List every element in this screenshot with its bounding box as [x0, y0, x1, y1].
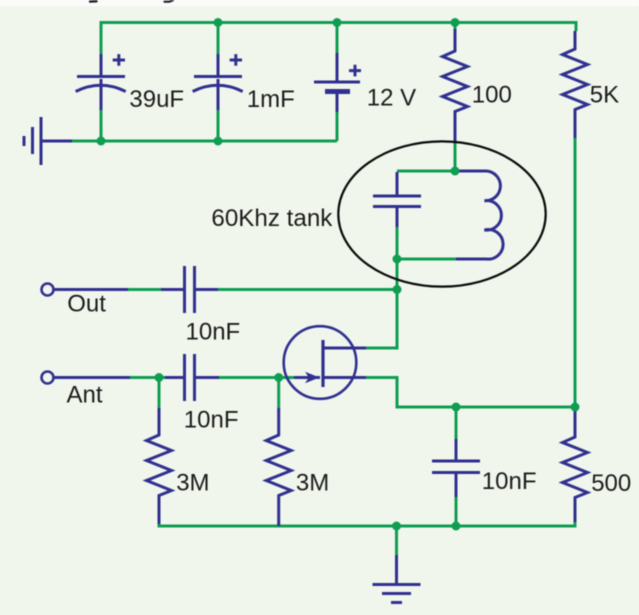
- node gate / 3M2: [274, 373, 283, 382]
- wire tank bottom horizontal (green part): [397, 258, 457, 261]
- transistor gate arrow: [305, 372, 320, 383]
- wire battery bottom lead to ground rail: [336, 112, 339, 141]
- ground (left) stem: [41, 140, 72, 143]
- node ground rail / 1mF: [214, 137, 223, 146]
- svg-text:39uF: 39uF: [129, 86, 184, 113]
- wire source to source rail: [366, 378, 575, 408]
- resistor 5K: [563, 31, 588, 138]
- svg-text:10nF: 10nF: [186, 319, 241, 346]
- ground (bottom) stem: [395, 555, 398, 585]
- svg-text:Ant: Ant: [67, 382, 103, 409]
- cut-off text descender 2: [165, 0, 173, 2]
- cut-off text descender 1: [90, 0, 97, 3]
- node top rail / 1mF: [214, 18, 223, 27]
- wire tank cap bottom (green part): [396, 227, 399, 259]
- tank capacitor: [396, 172, 399, 196]
- node bottom rail / ground: [392, 522, 401, 531]
- capacitor 10nF (Out coupling): [161, 288, 218, 291]
- wire 5K bottom long vertical: [574, 138, 577, 407]
- wire C10nF bottom bottom lead (green part): [455, 497, 458, 526]
- svg-text:100: 100: [472, 82, 512, 109]
- wire tank top horizontal: [397, 170, 455, 173]
- node Ant / 3M1: [155, 373, 164, 382]
- terminal Out: [42, 284, 54, 296]
- wire Out line (green part): [128, 288, 161, 291]
- node top rail / battery: [333, 18, 342, 27]
- terminal Ant: [42, 372, 54, 384]
- node tank bottom: [393, 255, 402, 264]
- resistor 3M (left): [147, 408, 172, 524]
- battery 12V: [336, 53, 339, 82]
- inductor L (tank coil): [455, 171, 503, 259]
- wire bottom rail: [159, 522, 575, 526]
- svg-text:60Khz tank: 60Khz tank: [211, 205, 333, 232]
- wire Out (navy part): [54, 288, 128, 291]
- wire C10nF bottom top lead (green part): [455, 407, 458, 439]
- capacitor 39uF: [100, 54, 103, 77]
- ground (left) bars: [40, 117, 43, 165]
- capacitor 10nF (bottom): [455, 439, 458, 461]
- resistor 100: [443, 29, 468, 143]
- transistor drain lead: [324, 347, 366, 350]
- node bottom rail / C10nF: [452, 522, 461, 531]
- node source rail / C10nF: [452, 403, 461, 412]
- wire 3M2 top lead (green part): [277, 378, 280, 409]
- svg-text:10nF: 10nF: [482, 468, 537, 495]
- transistor Q1 JFET circle: [284, 326, 357, 399]
- wire battery top lead (green part): [336, 23, 339, 54]
- svg-text:500: 500: [591, 470, 631, 497]
- wire Out cap right to rail: [218, 288, 397, 291]
- node Out junction: [393, 285, 402, 294]
- transistor source lead: [324, 376, 366, 379]
- wire vertical rail x=397 tank to drain: [366, 259, 397, 348]
- wire ground stem (green part): [395, 526, 398, 555]
- wire Ant cap right to gate node: [219, 376, 294, 379]
- ground (bottom) bars: [373, 583, 421, 586]
- resistor 3M (right): [266, 408, 291, 526]
- wire 1mF bottom lead (green part): [217, 110, 220, 141]
- svg-text:3M: 3M: [296, 470, 329, 497]
- svg-text:10nF: 10nF: [184, 407, 239, 434]
- transistor gate line: [294, 376, 320, 379]
- wire ground rail left: [72, 140, 337, 143]
- transistor channel bar: [321, 340, 324, 387]
- wire 39uF top lead (green part): [100, 23, 103, 55]
- annotation ellipse 60Khz tank: [338, 141, 545, 286]
- wire 1mF top lead (green part): [217, 23, 220, 55]
- node ground rail / 39uF: [97, 137, 106, 146]
- wire R100 bottom lead to tank: [454, 143, 457, 171]
- svg-text:3M: 3M: [176, 470, 209, 497]
- wire top rail: [101, 23, 576, 32]
- node top rail / R100: [451, 18, 460, 27]
- svg-text:1mF: 1mF: [247, 86, 295, 113]
- svg-text:Out: Out: [67, 291, 106, 318]
- capacitor 1mF: [217, 54, 220, 77]
- node source rail / 5K-500: [571, 403, 580, 412]
- wire Ant line (green part): [130, 376, 165, 379]
- capacitor 10nF (Ant coupling): [165, 376, 219, 379]
- svg-text:5K: 5K: [590, 82, 619, 109]
- white strip top (cut-off area of original screenshot): [0, 0, 639, 6]
- wire 3M1 top lead (green part): [158, 378, 161, 409]
- wire 39uF bottom lead (green part): [100, 110, 103, 141]
- resistor 500: [563, 409, 588, 522]
- svg-text:12 V: 12 V: [367, 84, 416, 111]
- node tank top: [451, 167, 460, 176]
- wire Ant (navy part): [54, 376, 130, 379]
- wire R100 top stub: [454, 23, 457, 30]
